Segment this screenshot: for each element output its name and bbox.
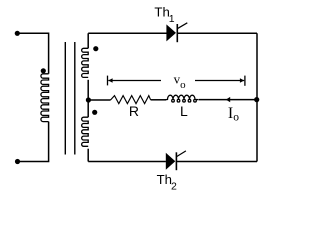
thyristor Th2 xyxy=(166,151,186,170)
svg-text:Th: Th xyxy=(154,4,169,19)
node secondary top polarity dot xyxy=(93,46,98,51)
wire top rail (anode side of Th1) xyxy=(88,32,166,34)
transformer primary winding P1 xyxy=(41,74,49,122)
svg-text:Th: Th xyxy=(157,172,172,187)
wire center tap to load xyxy=(88,99,110,101)
node load junction on right rail xyxy=(254,97,259,102)
resistor R xyxy=(111,96,151,104)
svg-text:1: 1 xyxy=(169,13,175,25)
vo annotation left tick xyxy=(107,76,109,86)
wire top rail (cathode side of Th1) xyxy=(177,32,257,34)
inductor L xyxy=(165,95,199,102)
wire L to right rail xyxy=(199,99,257,101)
transformer core xyxy=(65,42,75,155)
node primary top terminal xyxy=(15,31,20,36)
node secondary bottom polarity dot xyxy=(92,110,97,115)
svg-text:R: R xyxy=(129,103,139,119)
wire secondary top lead xyxy=(87,33,89,48)
wire primary bottom lead xyxy=(18,122,49,162)
vo annotation right tick xyxy=(244,76,246,86)
wire right rail xyxy=(256,33,258,161)
node center tap junction xyxy=(86,97,91,102)
node primary polarity dot xyxy=(41,68,46,73)
svg-text:o: o xyxy=(233,112,239,124)
wire primary top lead xyxy=(17,33,48,74)
thyristor Th1 xyxy=(166,23,187,42)
wire between R and L xyxy=(151,99,166,101)
wire bottom rail (right, cathode side of Th2) xyxy=(176,161,257,163)
transformer secondary winding S2 (bottom half) xyxy=(82,117,89,146)
current arrow Io xyxy=(226,97,230,102)
svg-text:2: 2 xyxy=(171,181,177,193)
wire secondary middle (center tap) xyxy=(87,80,89,117)
node primary bottom terminal xyxy=(15,159,20,164)
vo annotation right arrow xyxy=(195,78,244,82)
svg-text:o: o xyxy=(180,79,186,91)
vo annotation left arrow xyxy=(108,78,161,82)
svg-text:L: L xyxy=(180,103,188,119)
wire bottom rail (left, anode side of Th2) xyxy=(88,161,166,163)
transformer secondary winding S1 (top half) xyxy=(82,48,89,77)
wire secondary bottom lead xyxy=(87,149,89,162)
